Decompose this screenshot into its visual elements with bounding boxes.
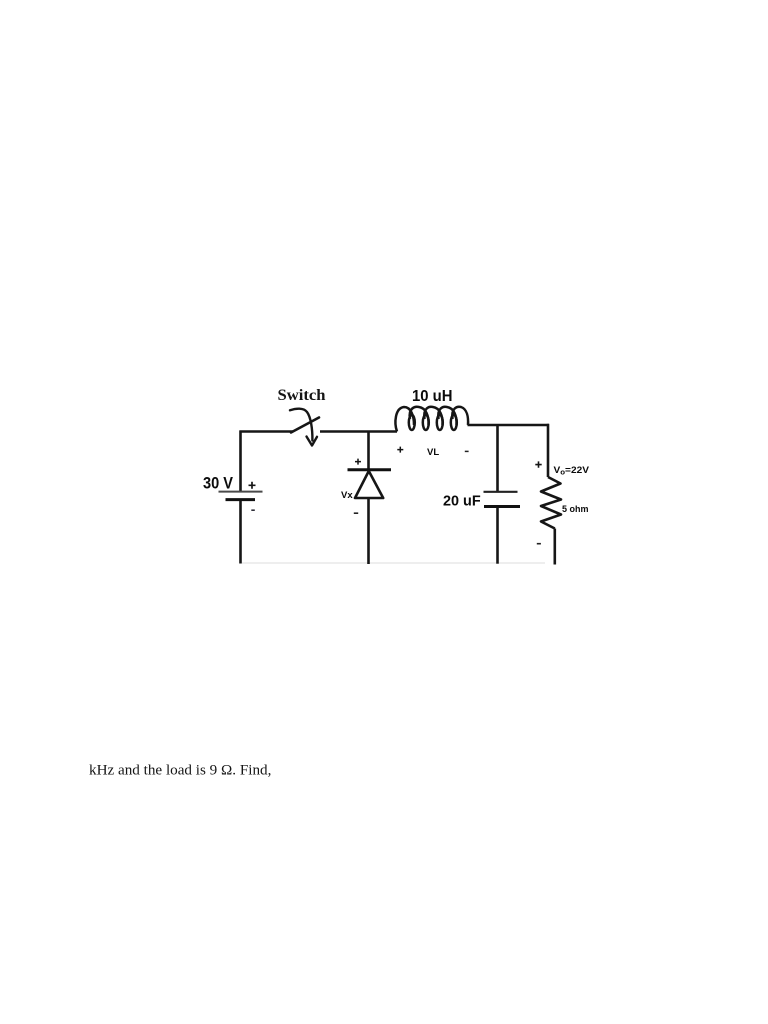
label VL plus bbox=[397, 447, 403, 453]
label resistor minus bbox=[537, 543, 541, 545]
diode D1 triangle (pointing up) bbox=[355, 471, 383, 498]
switch S1 actuation arrow bbox=[290, 409, 312, 441]
wire: battery branch vertical bottom bbox=[239, 500, 242, 564]
switch S1 blade bbox=[291, 418, 319, 433]
diode D1 cathode bar bbox=[348, 468, 392, 471]
wire: capacitor bottom lead bbox=[496, 507, 499, 564]
wire: battery branch vertical top bbox=[239, 431, 242, 492]
capacitor C1 plates bbox=[484, 491, 518, 493]
wire: resistor bottom lead bbox=[553, 529, 556, 565]
wire: top-right horizontal bbox=[468, 424, 550, 427]
svg-text:Switch: Switch bbox=[278, 387, 326, 404]
label battery minus bbox=[251, 509, 255, 511]
svg-text:10 uH: 10 uH bbox=[412, 388, 453, 405]
wire: faint erased bottom wire bbox=[242, 562, 545, 564]
wire: switch right contact to inductor bbox=[320, 430, 397, 433]
inductor L1 10 uH coil bbox=[395, 407, 468, 432]
label battery plus bbox=[249, 482, 256, 489]
svg-text:20 uF: 20 uF bbox=[443, 493, 481, 510]
wire: top-left horizontal to switch bbox=[240, 430, 294, 433]
wire: capacitor branch top bbox=[496, 425, 499, 491]
label VL minus bbox=[465, 450, 469, 452]
svg-text:kHz and the load is 9 Ω. Find,: kHz and the load is 9 Ω. Find, bbox=[89, 761, 271, 778]
label resistor plus bbox=[535, 461, 541, 467]
label diode plus bbox=[355, 459, 361, 465]
node: diode junction / diode branch wire top bbox=[367, 431, 370, 470]
wire: resistor branch top bbox=[547, 424, 550, 477]
label diode minus bbox=[354, 512, 358, 514]
svg-text:Vo=22V: Vo=22V bbox=[554, 465, 590, 477]
wire: diode bottom lead bbox=[367, 498, 370, 564]
resistor R1 zigzag bbox=[541, 477, 561, 529]
svg-text:Vx: Vx bbox=[341, 490, 353, 501]
svg-text:30 V: 30 V bbox=[203, 474, 234, 493]
svg-text:VL: VL bbox=[427, 447, 439, 458]
svg-text:5 ohm: 5 ohm bbox=[562, 504, 589, 514]
voltage source V1 30 V battery plates bbox=[219, 492, 263, 500]
